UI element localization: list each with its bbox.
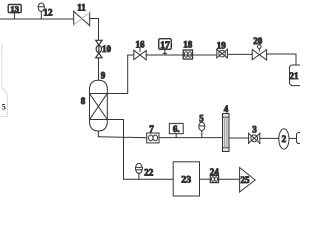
wire valve19 to valve20 [227,53,252,55]
valve 20 [252,45,266,60]
valve 10 needle [96,40,102,58]
vessel 9 dome [90,80,108,93]
svg-text:24: 24 [210,167,220,177]
svg-text:19: 19 [217,41,227,51]
wire column8 bottom stem [97,131,99,137]
wire column4 to valve3 [229,137,249,139]
wire pump2 to unit1 [289,137,297,139]
svg-text:9: 9 [101,71,106,81]
svg-text:13: 13 [10,4,19,14]
unit 23 [173,162,199,196]
wire column8 top takeoff to row2 [107,55,127,94]
wire unit23 to meter24 [200,178,211,180]
wire meter7 to column4 [159,137,223,139]
wire column8 side takeoff down to bottom row [107,120,123,180]
faint cylinder 15 [1,44,8,117]
unit 1 [297,133,305,144]
column 8 body [90,94,108,120]
svg-text:11: 11 [77,2,86,12]
wire top feed line [0,18,74,20]
gauge 12 [38,3,44,19]
svg-text:22: 22 [144,167,154,177]
flow meter 18 [183,50,192,59]
svg-text:21: 21 [290,71,300,81]
svg-text:6.: 6. [173,124,180,134]
wire meter24 to blower25 [219,178,240,180]
wire row2 left [128,54,134,56]
svg-text:8: 8 [81,96,86,106]
svg-text:23: 23 [181,174,191,185]
controller box 17 [159,39,172,55]
wire valve16 to valve19 [146,54,217,56]
wire valve11 to corner and down to valve10 [90,19,99,41]
wire valve3 to pump2 [260,137,279,139]
column 8 bottom dome [90,120,108,132]
svg-text:5: 5 [2,103,6,112]
svg-text:7: 7 [149,124,154,134]
controller box 6 [169,123,183,137]
svg-text:3: 3 [252,125,257,135]
wire valve20 to tank21 [267,54,296,65]
wire middle row from column8 [98,137,146,138]
wire bottom row left [124,178,174,180]
gauge 5 [199,122,205,137]
svg-text:2: 2 [282,134,287,144]
flow meter 24 [210,176,218,183]
flow meter 7 [147,133,159,143]
svg-text:4: 4 [224,104,229,114]
svg-text:16: 16 [136,39,146,49]
pump 2 [279,129,289,149]
blower 25 [240,168,256,193]
tank 13 [8,5,21,20]
svg-text:18: 18 [183,40,193,50]
svg-text:20: 20 [253,36,263,46]
svg-text:5: 5 [199,114,204,124]
tank 21 [290,65,304,86]
valve 16 [134,48,146,60]
wire valve10 to vessel9 top [98,58,100,80]
svg-text:25: 25 [241,175,251,185]
svg-text:12: 12 [44,7,54,17]
valve 19 [217,49,228,58]
valve 3 [249,133,260,144]
gauge 22 [136,163,143,179]
valve 11 [74,11,90,26]
column 4 [223,114,230,152]
svg-text:10: 10 [102,44,112,54]
svg-text:17: 17 [160,40,170,51]
